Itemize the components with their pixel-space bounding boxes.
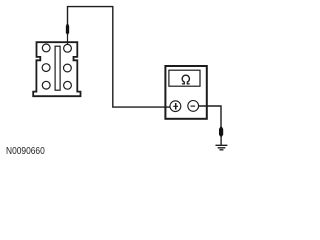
ohmmeter negative terminal <box>188 101 199 112</box>
wire probe P2 to ground <box>220 137 222 145</box>
connector pin 2 (probed) <box>64 44 72 52</box>
connector pin 5 <box>42 81 50 89</box>
ohmmeter M1 display <box>169 70 200 86</box>
minus sign <box>191 105 196 107</box>
plus sign <box>175 103 177 110</box>
wire from probe A up and across to ohmmeter positive lead <box>68 7 171 108</box>
connector pin 4 <box>64 64 72 72</box>
ohmmeter M1 ohm symbol <box>182 75 190 84</box>
figure label N0090660 <box>6 146 45 157</box>
ohmmeter M1 case <box>165 66 206 119</box>
connector C1 body outline <box>33 42 80 96</box>
probe tip P1 into connector pin <box>66 24 69 36</box>
connector C1 center slot <box>55 46 60 90</box>
ground symbol G1 <box>216 145 228 150</box>
connector pin 3 <box>42 64 50 72</box>
ohmmeter positive terminal <box>170 101 181 112</box>
wire probe P1 to pin <box>67 35 69 45</box>
wire from negative lead to ground probe <box>199 106 221 127</box>
connector pin 1 <box>42 44 50 52</box>
connector pin 6 <box>64 81 72 89</box>
probe tip P2 on ground lead <box>219 127 223 138</box>
